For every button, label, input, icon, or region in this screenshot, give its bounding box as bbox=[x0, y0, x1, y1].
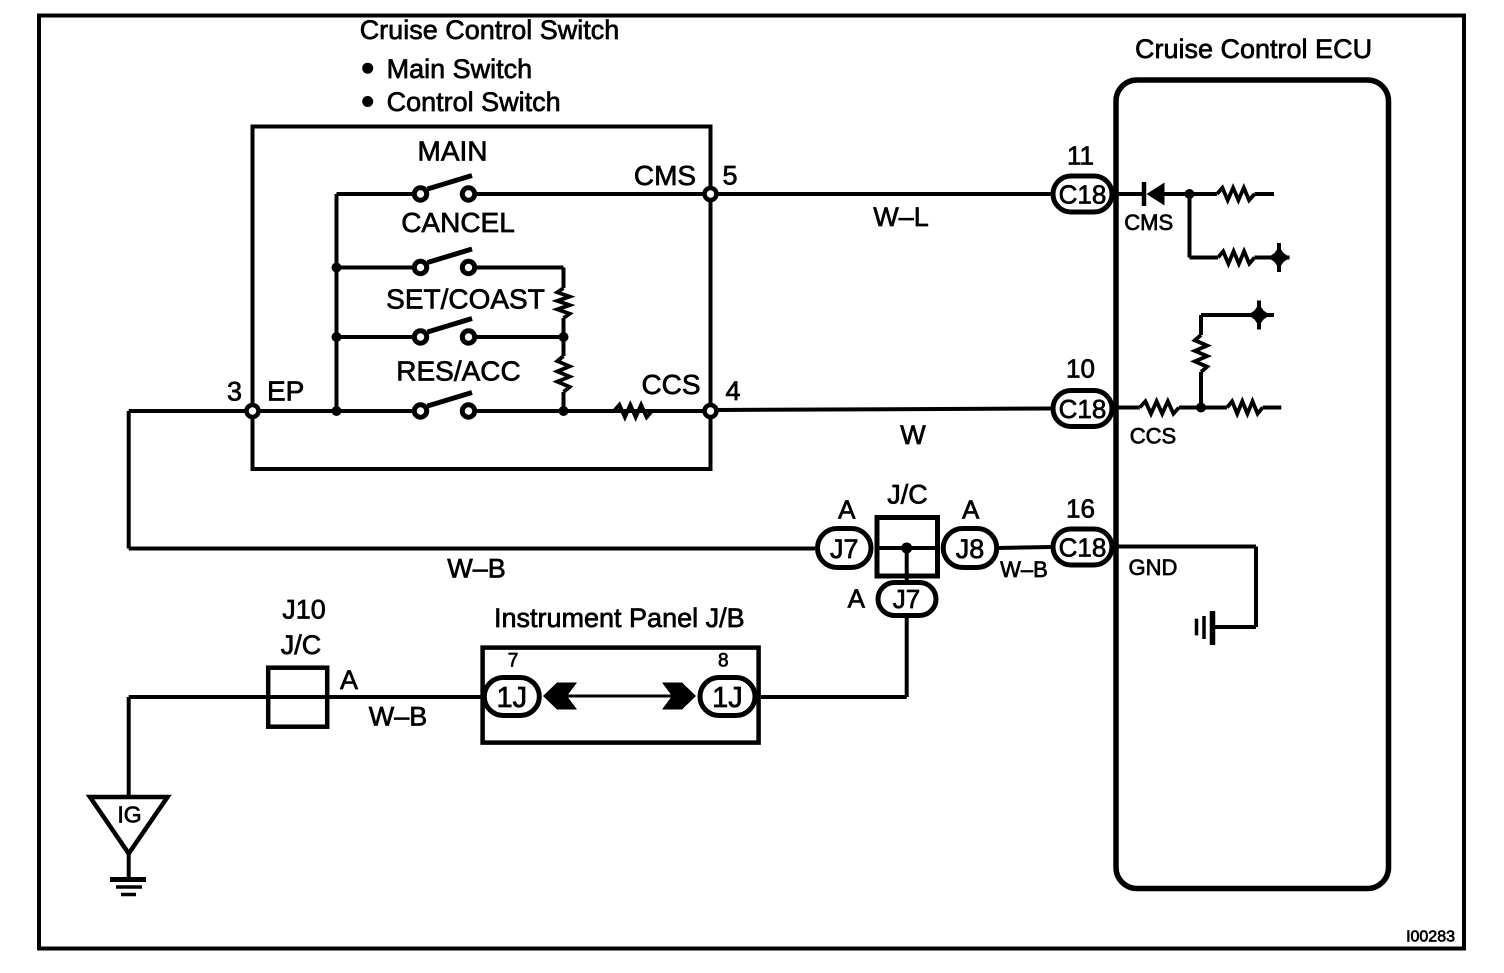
svg-text:J/C: J/C bbox=[887, 480, 928, 510]
svg-text:C18: C18 bbox=[1059, 394, 1107, 424]
svg-text:1J: 1J bbox=[712, 682, 743, 714]
svg-text:SET/COAST: SET/COAST bbox=[386, 284, 545, 315]
svg-text:W: W bbox=[900, 420, 926, 450]
svg-text:J7: J7 bbox=[893, 584, 920, 614]
svg-text:CMS: CMS bbox=[634, 160, 696, 191]
svg-text:8: 8 bbox=[718, 651, 729, 672]
svg-text:7: 7 bbox=[508, 651, 519, 672]
svg-text:A: A bbox=[962, 495, 980, 525]
svg-text:W–B: W–B bbox=[447, 554, 506, 584]
svg-text:A: A bbox=[340, 665, 358, 695]
svg-text:CMS: CMS bbox=[1124, 210, 1173, 235]
svg-text:CCS: CCS bbox=[1130, 424, 1176, 449]
svg-text:C18: C18 bbox=[1059, 533, 1107, 563]
svg-text:11: 11 bbox=[1067, 141, 1094, 171]
svg-text:W–B: W–B bbox=[1000, 557, 1048, 582]
svg-text:RES/ACC: RES/ACC bbox=[396, 356, 520, 387]
svg-text:A: A bbox=[848, 584, 866, 614]
svg-text:Cruise Control ECU: Cruise Control ECU bbox=[1135, 34, 1372, 64]
svg-text:W–B: W–B bbox=[369, 702, 428, 732]
svg-text:W–L: W–L bbox=[873, 202, 929, 232]
svg-text:EP: EP bbox=[267, 376, 304, 407]
svg-text:3: 3 bbox=[227, 377, 242, 407]
svg-text:CANCEL: CANCEL bbox=[401, 207, 515, 238]
svg-text:Main Switch: Main Switch bbox=[387, 54, 533, 84]
svg-text:4: 4 bbox=[725, 376, 740, 406]
svg-text:J10: J10 bbox=[282, 595, 326, 625]
svg-text:Cruise Control Switch: Cruise Control Switch bbox=[360, 15, 620, 45]
svg-text:C18: C18 bbox=[1059, 180, 1107, 210]
svg-text:J/C: J/C bbox=[281, 630, 322, 660]
svg-text:1J: 1J bbox=[496, 682, 527, 714]
svg-text:Instrument Panel J/B: Instrument Panel J/B bbox=[494, 603, 745, 633]
svg-text:IG: IG bbox=[117, 802, 141, 828]
svg-text:GND: GND bbox=[1129, 555, 1178, 580]
svg-text:CCS: CCS bbox=[641, 369, 700, 400]
svg-text:J7: J7 bbox=[830, 534, 859, 564]
svg-text:A: A bbox=[838, 495, 856, 525]
svg-text:10: 10 bbox=[1066, 354, 1095, 384]
svg-text:I00283: I00283 bbox=[1406, 929, 1455, 946]
svg-text:5: 5 bbox=[722, 161, 737, 191]
svg-text:16: 16 bbox=[1066, 494, 1095, 524]
svg-text:J8: J8 bbox=[956, 534, 985, 564]
svg-text:Control Switch: Control Switch bbox=[387, 87, 561, 117]
svg-text:MAIN: MAIN bbox=[418, 136, 488, 167]
